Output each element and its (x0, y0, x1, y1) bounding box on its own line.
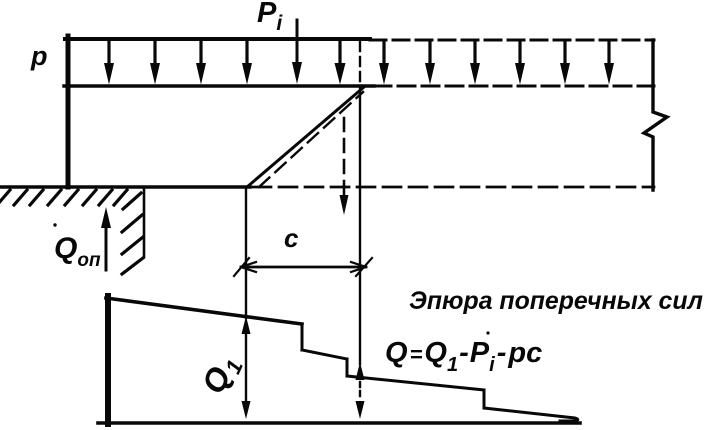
beam bottom dashed line (253, 186, 654, 189)
load band top line dashed (370, 39, 654, 42)
shear diagram slope 3 (347, 376, 484, 390)
svg-text:Qоп: Qоп (54, 232, 101, 271)
force P_i arrow (292, 20, 302, 84)
svg-text:Q1: Q1 (195, 349, 248, 401)
beam left edge (66, 36, 71, 187)
diagonal section line dashed (259, 92, 363, 187)
support column hatching (122, 193, 143, 274)
shear diagram step 3 (483, 390, 486, 408)
shear diagram top edge slope 1 (106, 298, 302, 324)
distributed load arrows (104, 41, 614, 85)
right edge with break symbol (644, 40, 667, 190)
stray mark above equation (486, 331, 489, 334)
load band bottom line solid (64, 84, 374, 88)
dimension c line (241, 266, 366, 269)
load band top line solid (65, 37, 370, 41)
stray dot left of support (53, 223, 56, 226)
diagonal section line solid (247, 87, 364, 187)
shear diagram slope 4 (484, 408, 578, 421)
reaction Q_op arrow (101, 207, 111, 270)
ground line (0, 185, 250, 189)
extension line at section right (x=360) dashed in band (359, 42, 361, 86)
dimension c right arrowhead (351, 258, 372, 276)
extension line at section right (x=360) (359, 87, 361, 364)
load band bottom line dashed (374, 85, 654, 88)
svg-text:Pi: Pi (257, 0, 283, 35)
dimension Q1 arrow (242, 316, 251, 419)
ground hatching (0, 190, 127, 205)
shear diagram step 2 (346, 359, 349, 376)
svg-text:Q=Q1-Pi-pc: Q=Q1-Pi-pc (385, 337, 542, 376)
dimension Q arrow (356, 362, 365, 419)
svg-text:p: p (30, 41, 48, 71)
shear diagram left edge (105, 296, 111, 424)
svg-text:c: c (284, 223, 299, 253)
shear diagram base line (98, 421, 580, 425)
shear diagram slope 2 (302, 350, 347, 359)
svg-text:Эпюра поперечных сил: Эпюра поперечных сил (409, 287, 703, 315)
extension line at section left (x=246) (245, 187, 247, 318)
dashed force resultant arrow (340, 118, 349, 215)
dimension c left arrowhead (234, 258, 256, 276)
support column right edge (143, 187, 146, 257)
shear diagram step 1 (301, 324, 304, 350)
